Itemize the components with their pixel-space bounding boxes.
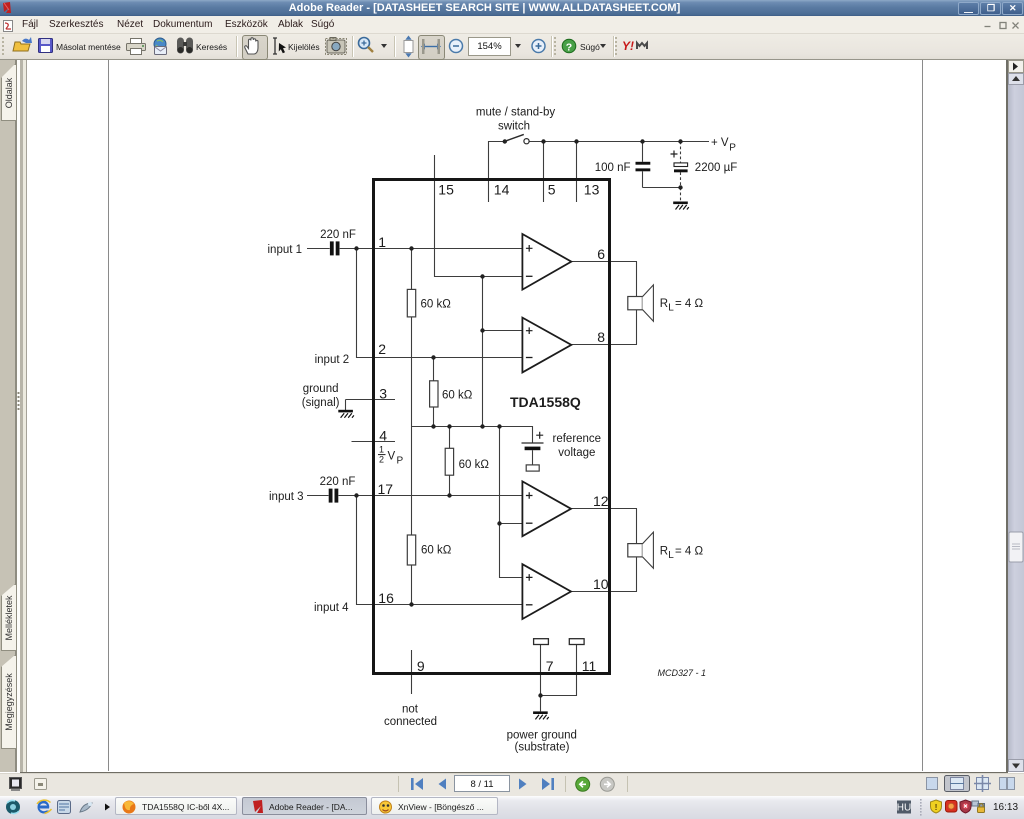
node rail R3 [447, 424, 451, 428]
node C3 bottom junction [678, 185, 682, 189]
scrollbar thumb [1009, 532, 1023, 562]
scrollbar top toggle button [1009, 61, 1024, 73]
pin number labels [378, 181, 609, 674]
output 6 wire [571, 261, 637, 263]
taskbar [0, 796, 1024, 819]
pin 4 stub [352, 441, 396, 443]
wire cap junction [643, 187, 681, 189]
save floppy icon [39, 39, 53, 53]
wire pin14 to switch [489, 142, 505, 203]
Y!M logo [622, 39, 647, 53]
tray shield red [960, 800, 971, 813]
nav next [519, 779, 527, 790]
resistor R4 leads [411, 427, 413, 536]
tab pin 7 [534, 639, 549, 645]
node pin2/R2 junction [431, 355, 435, 359]
toolbar zoom combo [468, 37, 511, 56]
op-amp A1 [522, 234, 571, 290]
node op1 minus junction [480, 274, 484, 278]
node pin13 junction [574, 139, 578, 143]
history back [576, 777, 590, 791]
toolbar group separators [236, 36, 238, 57]
pin 9 wire [411, 650, 413, 694]
status: page mode icon [10, 778, 22, 792]
node input3 cap junction [354, 493, 358, 497]
layout facing [1000, 778, 1015, 790]
toolbar grip 3 [615, 37, 617, 55]
ground (signal) pin 3 wire [346, 399, 396, 401]
select tool icon [273, 38, 286, 54]
snapshot camera icon [326, 38, 347, 55]
ground (signal) [338, 410, 354, 418]
wire +Vp supply rail [529, 141, 709, 143]
tray separator [920, 799, 922, 816]
zoom-out button icon [450, 40, 463, 53]
toolbar [0, 34, 1024, 60]
output 12 wire [571, 508, 637, 510]
quick launch: explorer [58, 801, 71, 814]
node op2 plus junction [480, 328, 484, 332]
svg-text:?: ? [566, 42, 572, 54]
resistor R3 leads [449, 427, 451, 449]
node dots [354, 139, 682, 697]
feedback wire A [482, 277, 484, 427]
pin 7 wire [540, 645, 542, 696]
task icon: firefox [123, 801, 136, 814]
scrollbar [1008, 60, 1024, 772]
node input1 cap junction [354, 246, 358, 250]
quick launch: tool swoosh [80, 802, 92, 812]
quick launch expand arrow [105, 804, 110, 811]
node op3 minus junction [497, 521, 501, 525]
tray network lock [972, 801, 985, 813]
capacitor C2 leads [642, 142, 644, 162]
op-amp A4 [522, 564, 571, 619]
nav prev [439, 779, 447, 790]
node rail R2 [431, 424, 435, 428]
quick launch: app swirl [6, 800, 20, 814]
label 1/2 VP [379, 445, 384, 465]
resistor R3 body [445, 448, 453, 475]
speaker LS2 [628, 532, 654, 568]
svg-text:16:13: 16:13 [993, 802, 1018, 813]
history forward [600, 777, 614, 791]
capacitor C4 220nF plates [329, 489, 339, 503]
help icon [562, 39, 576, 53]
node C3 junction [678, 139, 682, 143]
hand tool icon [245, 38, 258, 54]
toolbar grip [2, 37, 4, 55]
input 3 wire [307, 495, 329, 497]
zoom-in tool icon [359, 38, 374, 53]
svg-text:HU: HU [897, 803, 911, 814]
toolbar pressed fit-width button [418, 35, 445, 60]
node pin16/R4 junction [409, 602, 413, 606]
resistor R2 body [430, 381, 438, 407]
tray HU badge [897, 801, 911, 814]
pin 5 wire [543, 142, 545, 203]
fit height icon [404, 36, 413, 58]
op-amp A2 [522, 318, 571, 373]
pin 13 wire [576, 142, 578, 203]
menu bar [0, 16, 1024, 34]
svg-text:Y!: Y! [622, 39, 634, 53]
speaker 1 wire [636, 262, 638, 345]
capacitor C2 100nF plates [636, 162, 651, 171]
node pin1/R1 junction [409, 246, 413, 250]
capacitor C1 220nF plates [330, 241, 340, 255]
resistor R4 body [407, 535, 415, 565]
wire input3 branch to pin 16 [357, 496, 523, 605]
adobe reader window icon [3, 2, 11, 13]
fit width icon [421, 39, 441, 54]
scrollbar down button [1009, 760, 1024, 772]
speaker LS1 [628, 285, 654, 321]
binoculars icon [177, 38, 193, 54]
schematic text labels [268, 106, 738, 753]
layout continuous (pressed) [945, 776, 970, 792]
status bar [0, 773, 1024, 797]
capacitor C3 2200uF plates [671, 151, 688, 173]
tray red app [946, 801, 958, 813]
layout continuous facing [974, 775, 991, 792]
resistor R2 leads [433, 358, 435, 381]
zoom-in button icon [532, 40, 545, 53]
node rail A [480, 424, 484, 428]
nav page box [455, 776, 510, 792]
printer icon [127, 39, 146, 55]
capacitor C3 leads (dashed) [680, 142, 682, 163]
menu pdf icon [4, 21, 13, 32]
scrollbar up button [1009, 74, 1024, 85]
op-amp A3 [522, 481, 571, 536]
quick launch: IE [37, 800, 52, 813]
nav first [411, 778, 423, 790]
wire input1 branch to pin 2 [357, 249, 523, 358]
output 10 wire [571, 591, 637, 593]
pin 11 wire [541, 645, 577, 696]
switch S1 [503, 134, 530, 143]
node Vref rail [412, 427, 533, 444]
tray shield yellow [931, 800, 942, 813]
email icon [154, 38, 167, 55]
reference cap lead [532, 450, 534, 465]
status: small button [35, 779, 47, 790]
sidebar splitter grip [18, 392, 20, 410]
tab pin 11 [569, 639, 584, 645]
ground (power/substrate) [533, 711, 549, 719]
toolbar grip 2 [554, 37, 556, 55]
reference voltage capacitor [522, 432, 544, 471]
input 1 wire [307, 248, 330, 250]
output 8 wire [571, 344, 637, 346]
open folder icon [13, 37, 32, 51]
toolbar pressed hand button [242, 35, 268, 60]
pin 15 wire [435, 155, 523, 277]
window title bar [0, 0, 1024, 16]
svg-text:!: ! [935, 802, 938, 812]
power ground lead [540, 696, 542, 712]
resistor R1 body [407, 289, 415, 317]
child window controls [985, 23, 1019, 29]
svg-text:8 / 11: 8 / 11 [470, 779, 493, 790]
IC TDA1558Q box [374, 180, 610, 674]
node rail B [497, 424, 501, 428]
feedback wire B [500, 427, 523, 578]
ground (supply) [673, 202, 689, 210]
layout single [927, 778, 938, 790]
node pins 7-11 junction [538, 693, 542, 697]
task icon: xnview [380, 801, 392, 813]
nav last [542, 778, 554, 790]
node R3 input3 junction [447, 493, 451, 497]
status separators [399, 776, 628, 792]
resistor R1 leads [411, 249, 413, 290]
speaker 2 wire [636, 509, 638, 592]
node C2 junction [640, 139, 644, 143]
task icon: adobe [253, 800, 263, 813]
node pin5 junction [541, 139, 545, 143]
